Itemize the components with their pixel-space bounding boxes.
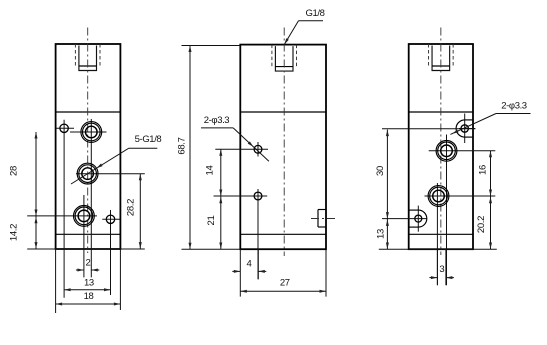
label 2-phi3.3 (right) leader	[496, 113, 531, 115]
svg-text:14: 14	[205, 166, 216, 176]
svg-text:16: 16	[478, 165, 489, 175]
left view port A1 center lines	[90, 119, 92, 277]
middle view side slot tab	[318, 209, 326, 211]
left view mounting hole M1 center lines	[63, 120, 65, 298]
left view port A2 center line	[76, 173, 145, 175]
svg-text:68.7: 68.7	[177, 137, 188, 154]
dimension 30 line	[386, 130, 388, 249]
middle view hole C1 center lines	[215, 148, 268, 150]
middle view hole C1 (phi 3.3)	[254, 145, 262, 153]
middle view bottom extension line	[182, 248, 241, 250]
middle view upper internal line	[240, 111, 326, 113]
right view port B1 center lines	[446, 135, 448, 286]
middle view left edge extension	[239, 249, 241, 296]
dimension 28 line	[35, 132, 37, 249]
left view upper internal line	[56, 111, 121, 113]
dimension 13 line	[64, 289, 110, 291]
left view lower internal line	[56, 233, 121, 235]
left view port A1 (top G1/8 port)	[81, 122, 102, 143]
middle view right edge extension	[325, 249, 327, 296]
middle view hole C2 center lines	[214, 195, 268, 197]
right view G1/8 top recess	[428, 44, 430, 67]
middle view vertical center line	[283, 28, 285, 257]
svg-text:18: 18	[84, 291, 94, 302]
left view body outline	[56, 44, 121, 249]
label G1/8 leader	[299, 20, 324, 22]
label 5-G1/8 leader	[129, 147, 158, 149]
middle view slot center line	[311, 218, 336, 220]
middle view hole column extension	[257, 249, 259, 279]
dimension 27 line	[240, 290, 326, 292]
dimension 14 line	[220, 149, 222, 196]
middle view G1/8 top recess	[271, 45, 273, 68]
svg-text:G1/8: G1/8	[306, 8, 325, 19]
svg-text:20.2: 20.2	[476, 216, 487, 233]
dimension 30 extension	[382, 128, 475, 130]
svg-text:4: 4	[247, 259, 252, 270]
right view port B1 (G1/8)	[436, 140, 457, 161]
right view upper internal line	[409, 111, 473, 113]
left view mounting hole M2	[106, 215, 114, 223]
dimension 28.2 line	[139, 174, 141, 249]
left view vertical center line	[87, 28, 89, 254]
svg-text:2-φ3.3: 2-φ3.3	[204, 115, 230, 126]
dimension 4 arrows	[232, 270, 240, 272]
svg-text:3: 3	[439, 264, 444, 275]
middle view body outline	[240, 45, 326, 250]
right view lower internal line	[409, 233, 473, 235]
right view mounting hole M4 slot	[409, 209, 419, 211]
svg-text:5-G1/8: 5-G1/8	[135, 134, 162, 145]
left view left edge extension	[55, 249, 57, 313]
svg-text:2: 2	[85, 258, 90, 269]
right view port B2 (G1/8)	[428, 186, 449, 207]
dimension 16 line	[490, 151, 492, 196]
middle view lower internal line	[240, 233, 326, 235]
right view bottom extension line	[379, 248, 497, 250]
svg-text:13: 13	[84, 278, 94, 289]
left view port A3 (bottom G1/8 port)	[74, 206, 95, 227]
right view mounting hole M3	[461, 125, 468, 132]
dimension 68.7 line	[189, 46, 191, 250]
dimension 13r arrows	[386, 219, 389, 226]
left view bottom extension line	[27, 248, 145, 250]
left view G1/8 top recess	[74, 44, 76, 67]
middle view hole C2 (phi 3.3)	[254, 192, 262, 200]
svg-text:28: 28	[8, 166, 19, 176]
svg-text:14.2: 14.2	[9, 224, 20, 241]
svg-text:13: 13	[376, 229, 387, 239]
svg-text:2-φ3.3: 2-φ3.3	[501, 101, 527, 112]
right view mounting hole M3 slot	[465, 119, 473, 121]
dimension 2 arrows	[76, 269, 84, 271]
dimension 3 arrows	[429, 277, 437, 279]
right view mounting hole M4 center lines	[417, 206, 419, 232]
left view port A2 (middle G1/8 port)	[77, 163, 98, 184]
svg-text:27: 27	[280, 278, 290, 289]
middle view top extension line	[182, 45, 241, 47]
svg-text:30: 30	[375, 166, 386, 176]
label 2-phi3.3 (middle) leader	[201, 127, 233, 129]
left view mounting hole M1	[60, 124, 68, 132]
dimension 3 extensions	[436, 249, 438, 285]
svg-text:28.2: 28.2	[125, 199, 136, 216]
left view mounting hole M2 center lines	[110, 210, 112, 295]
left view port A3 center lines	[83, 195, 85, 277]
dimension 18 line	[56, 303, 121, 305]
right view body outline	[409, 44, 473, 249]
right view mounting hole M3 center lines	[464, 114, 466, 144]
dimension 21 line	[220, 196, 222, 249]
right view port B2 center lines	[436, 183, 438, 285]
svg-text:21: 21	[206, 216, 217, 226]
dimension 20.2 line	[490, 196, 492, 249]
right view mounting hole M4	[415, 215, 422, 222]
left view right edge extension	[119, 249, 121, 310]
dimension 14.2 arrows	[35, 217, 38, 224]
right view vertical center line	[440, 28, 442, 256]
